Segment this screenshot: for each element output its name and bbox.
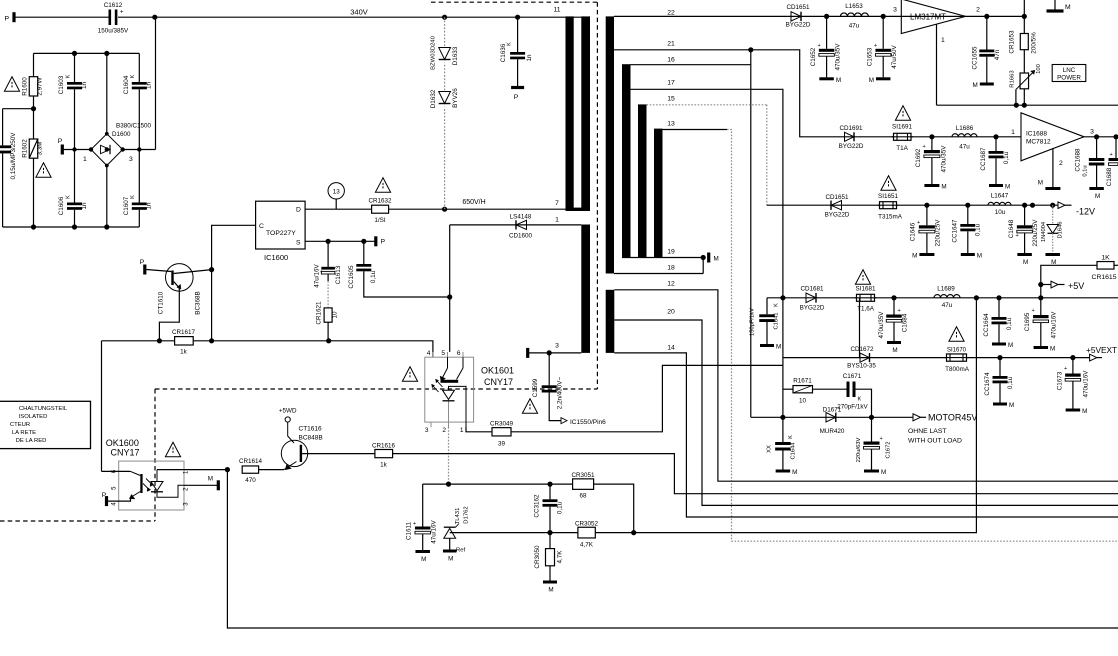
svg-text:C1599: C1599 [532, 378, 539, 397]
svg-text:M: M [792, 469, 797, 476]
svg-text:Ref: Ref [456, 548, 466, 554]
svg-text:M: M [1065, 4, 1071, 11]
svg-text:470u/16V: 470u/16V [1083, 370, 1090, 398]
svg-text:CD1651: CD1651 [786, 4, 810, 11]
svg-text:CNY17: CNY17 [111, 448, 140, 458]
svg-text:1: 1 [460, 427, 464, 434]
svg-text:D1632: D1632 [430, 89, 437, 108]
svg-text:XX: XX [767, 445, 773, 453]
svg-text:1k: 1k [380, 461, 388, 468]
svg-text:CR1616: CR1616 [372, 442, 396, 449]
svg-text:D: D [296, 207, 301, 214]
svg-text:+: + [818, 43, 821, 49]
svg-text:39: 39 [498, 440, 506, 447]
svg-text:4: 4 [427, 350, 431, 357]
svg-text:5: 5 [441, 350, 445, 357]
svg-text:K: K [66, 195, 72, 199]
svg-text:1n: 1n [81, 202, 88, 210]
svg-text:CC1687: CC1687 [980, 147, 987, 171]
svg-text:470u/35V: 470u/35V [835, 43, 842, 71]
svg-text:0,1u: 0,1u [1006, 317, 1013, 330]
svg-text:M: M [881, 469, 886, 476]
svg-text:3: 3 [893, 7, 897, 14]
svg-text:2: 2 [1059, 160, 1063, 167]
svg-text:+5VEXT: +5VEXT [1086, 345, 1117, 355]
svg-text:P: P [514, 94, 519, 101]
svg-text:R1600: R1600 [22, 77, 29, 96]
svg-text:650V/H: 650V/H [462, 199, 485, 206]
svg-text:LS4148: LS4148 [510, 213, 532, 220]
svg-text:D1762: D1762 [464, 506, 470, 523]
svg-text:47n: 47n [994, 49, 1001, 60]
svg-text:M: M [977, 253, 982, 260]
svg-text:M: M [1009, 402, 1014, 409]
svg-text:M: M [836, 77, 841, 84]
svg-text:16: 16 [667, 57, 675, 64]
svg-text:BYG22D: BYG22D [800, 305, 825, 312]
svg-text:WITH OUT LOAD: WITH OUT LOAD [908, 437, 962, 444]
svg-text:M: M [941, 184, 946, 191]
svg-text:22: 22 [667, 10, 675, 17]
svg-text:13: 13 [667, 121, 675, 128]
svg-text:C1644: C1644 [791, 442, 797, 460]
svg-text:TL431: TL431 [455, 508, 461, 525]
svg-text:MUR420: MUR420 [820, 428, 845, 435]
svg-text:K: K [507, 42, 513, 46]
svg-text:7: 7 [555, 200, 559, 207]
svg-text:M: M [776, 344, 781, 351]
svg-text:17: 17 [667, 80, 675, 87]
svg-text:CC1688: CC1688 [1075, 148, 1082, 172]
svg-text:BYG22D: BYG22D [786, 22, 811, 29]
svg-text:470u/35V: 470u/35V [878, 311, 885, 339]
svg-text:C: C [259, 223, 264, 230]
svg-text:T315mA: T315mA [878, 213, 903, 220]
svg-text:470u/16V: 470u/16V [1051, 311, 1058, 339]
svg-text:1: 1 [83, 156, 87, 163]
svg-text:SI1691: SI1691 [892, 124, 912, 131]
svg-text:B380/C1500: B380/C1500 [116, 123, 152, 130]
svg-text:2: 2 [442, 427, 446, 434]
svg-text:47u: 47u [849, 23, 860, 30]
svg-text:2,97W: 2,97W [37, 77, 44, 95]
svg-text:SI1681: SI1681 [856, 286, 876, 293]
svg-text:1K: 1K [1101, 254, 1110, 261]
svg-text:0,1u: 0,1u [975, 223, 982, 236]
svg-text:+: + [1016, 233, 1019, 239]
svg-text:C1606: C1606 [58, 196, 65, 215]
svg-text:C1641: C1641 [774, 312, 780, 329]
svg-text:1N4004: 1N4004 [1041, 221, 1047, 242]
svg-text:1n: 1n [81, 82, 88, 90]
svg-text:M: M [1023, 259, 1028, 266]
svg-text:K: K [774, 303, 780, 307]
svg-text:SI1651: SI1651 [878, 193, 898, 200]
svg-text:470: 470 [245, 477, 256, 484]
svg-text:L1647: L1647 [991, 193, 1009, 200]
svg-text:0,1u: 0,1u [1083, 165, 1089, 176]
svg-text:BYG22D: BYG22D [839, 143, 864, 150]
svg-text:T800mA: T800mA [945, 366, 970, 373]
svg-text:R1663: R1663 [1010, 70, 1016, 88]
svg-text:K: K [130, 74, 136, 78]
svg-text:2,2n/400V~: 2,2n/400V~ [557, 376, 564, 409]
svg-text:CNY17: CNY17 [484, 377, 513, 387]
svg-text:200/5%: 200/5% [1031, 32, 1038, 54]
svg-text:BC368B: BC368B [195, 291, 202, 314]
svg-text:C1653: C1653 [867, 47, 874, 66]
svg-text:CC1664: CC1664 [983, 313, 990, 337]
svg-text:L1689: L1689 [937, 285, 955, 292]
svg-text:BZW03D240: BZW03D240 [431, 35, 437, 69]
svg-text:C1688: C1688 [1106, 167, 1113, 186]
svg-text:C1613: C1613 [335, 265, 342, 284]
svg-text:M: M [912, 253, 917, 260]
svg-text:1: 1 [941, 37, 945, 44]
svg-text:C1611: C1611 [406, 521, 413, 540]
svg-text:0,15u/MP3/250V: 0,15u/MP3/250V [10, 132, 17, 180]
svg-text:3: 3 [425, 427, 429, 434]
svg-text:C1646: C1646 [910, 222, 917, 241]
svg-text:0,1u: 0,1u [1007, 376, 1014, 389]
svg-text:CT1610: CT1610 [158, 291, 165, 314]
svg-text:15: 15 [667, 96, 675, 103]
svg-text:LA RETE: LA RETE [12, 430, 36, 436]
svg-text:47u: 47u [959, 144, 970, 151]
svg-text:CD1672: CD1672 [850, 346, 874, 353]
svg-text:C1607: C1607 [123, 196, 130, 215]
svg-text:C1684: C1684 [902, 313, 909, 332]
svg-text:CR1614: CR1614 [239, 458, 263, 465]
svg-text:+: + [320, 269, 323, 275]
svg-text:+: + [413, 521, 416, 527]
svg-text:100: 100 [1036, 63, 1042, 74]
svg-text:P: P [140, 259, 145, 266]
svg-text:IC1600: IC1600 [264, 253, 288, 262]
svg-text:+: + [898, 308, 901, 314]
svg-text:+: + [1110, 152, 1113, 158]
svg-text:220u/25V: 220u/25V [1032, 219, 1039, 247]
svg-text:CR3052: CR3052 [575, 521, 599, 528]
svg-text:21: 21 [667, 41, 675, 48]
svg-text:4,7K: 4,7K [580, 541, 594, 548]
svg-text:LM317MT: LM317MT [910, 13, 946, 22]
svg-text:18: 18 [667, 265, 675, 272]
svg-text:C1612: C1612 [104, 2, 123, 9]
svg-text:BYG22D: BYG22D [825, 212, 850, 219]
svg-text:K: K [788, 435, 794, 439]
svg-text:1: 1 [555, 217, 559, 224]
svg-text:+5WD: +5WD [279, 407, 297, 414]
svg-text:CR3050: CR3050 [534, 545, 541, 569]
svg-text:20: 20 [667, 309, 675, 316]
svg-text:CR1621: CR1621 [316, 301, 323, 325]
svg-text:0,1u: 0,1u [557, 501, 564, 514]
svg-text:220u/63V: 220u/63V [856, 437, 862, 462]
svg-text:C1672: C1672 [886, 441, 892, 458]
svg-text:M: M [208, 476, 213, 483]
svg-text:P: P [58, 138, 63, 145]
svg-text:10: 10 [332, 311, 339, 319]
svg-text:1n: 1n [526, 54, 533, 62]
svg-text:CC1647: CC1647 [952, 219, 959, 243]
svg-text:-12V: -12V [1076, 207, 1095, 217]
svg-text:+: + [874, 43, 877, 49]
svg-text:4,7K: 4,7K [557, 550, 564, 564]
svg-text:270pF/1kV: 270pF/1kV [837, 403, 868, 410]
svg-text:M: M [892, 347, 897, 354]
svg-text:C1671: C1671 [843, 373, 862, 380]
svg-text:BC848B: BC848B [299, 435, 323, 442]
svg-text:L1686: L1686 [956, 125, 974, 132]
svg-text:SI1670: SI1670 [947, 347, 967, 353]
svg-text:+: + [1064, 366, 1067, 372]
svg-text:OK1601: OK1601 [481, 366, 514, 376]
svg-text:ISOLATED: ISOLATED [19, 414, 48, 420]
svg-text:M: M [1005, 184, 1010, 191]
svg-text:340V: 340V [350, 8, 368, 17]
svg-text:C1673: C1673 [1057, 371, 1064, 390]
svg-text:+: + [917, 220, 920, 226]
svg-text:K: K [66, 74, 72, 78]
svg-text:C1604: C1604 [123, 75, 130, 94]
svg-text:1k: 1k [180, 349, 188, 356]
svg-text:CC1655: CC1655 [972, 46, 979, 70]
svg-text:CC1674: CC1674 [984, 372, 991, 396]
svg-text:IC1550/Pin6: IC1550/Pin6 [570, 419, 606, 426]
svg-text:T1A: T1A [896, 145, 908, 152]
svg-text:M: M [1082, 408, 1087, 415]
svg-text:L1653: L1653 [845, 3, 863, 10]
svg-text:D1646: D1646 [1058, 221, 1064, 238]
svg-text:3: 3 [555, 343, 559, 350]
svg-text:CTEUR: CTEUR [10, 422, 30, 428]
svg-text:47u: 47u [942, 302, 953, 309]
svg-text:6: 6 [457, 350, 461, 357]
svg-text:C1692: C1692 [915, 148, 922, 167]
svg-text:CR1617: CR1617 [172, 329, 196, 336]
svg-text:3: 3 [129, 156, 133, 163]
svg-text:+: + [880, 436, 883, 442]
svg-text:+: + [923, 144, 926, 150]
svg-text:47u/50V: 47u/50V [891, 44, 898, 68]
svg-text:0,1u: 0,1u [370, 270, 377, 283]
svg-text:12: 12 [667, 281, 675, 288]
svg-text:CD1691: CD1691 [839, 125, 863, 132]
svg-text:D1600: D1600 [112, 131, 131, 138]
svg-text:S: S [296, 240, 301, 247]
svg-text:10u: 10u [995, 209, 1006, 216]
svg-text:220u/25V: 220u/25V [935, 219, 942, 247]
svg-text:47u/16V: 47u/16V [431, 519, 438, 543]
svg-text:150pF/1kV: 150pF/1kV [750, 308, 756, 336]
svg-text:2: 2 [976, 7, 980, 14]
svg-text:K: K [130, 195, 136, 199]
svg-text:CR1632: CR1632 [368, 197, 392, 204]
svg-text:P: P [5, 15, 10, 22]
svg-text:M: M [1095, 193, 1100, 200]
svg-text:14: 14 [667, 345, 675, 352]
svg-text:R1671: R1671 [793, 378, 812, 385]
svg-text:TOP227Y: TOP227Y [266, 230, 296, 237]
svg-text:CD1681: CD1681 [800, 286, 824, 293]
svg-text:+: + [1032, 308, 1035, 314]
svg-text:M: M [1038, 180, 1043, 187]
svg-text:P: P [102, 492, 107, 499]
svg-text:19: 19 [667, 249, 675, 256]
svg-text:OHNE LAST: OHNE LAST [908, 428, 947, 435]
svg-text:3: 3 [1090, 129, 1094, 136]
svg-text:IC1688: IC1688 [1026, 131, 1047, 138]
svg-text:CR1653: CR1653 [1009, 30, 1016, 54]
svg-text:CR3051: CR3051 [571, 472, 595, 479]
svg-text:150u/385V: 150u/385V [98, 28, 129, 35]
svg-text:1: 1 [1011, 129, 1015, 136]
svg-text:D1633: D1633 [452, 46, 459, 65]
svg-text:M: M [1050, 346, 1055, 353]
svg-text:C1603: C1603 [58, 75, 65, 94]
svg-text:C1648: C1648 [1008, 219, 1015, 238]
svg-text:10: 10 [799, 397, 807, 404]
svg-text:LNC: LNC [1063, 67, 1076, 74]
svg-text:M: M [714, 256, 719, 263]
svg-text:M: M [973, 82, 978, 89]
svg-text:DE LA RED: DE LA RED [16, 438, 47, 444]
svg-text:BYV26: BYV26 [452, 88, 459, 108]
svg-text:K: K [858, 397, 862, 403]
svg-text:CR3049: CR3049 [490, 421, 514, 428]
svg-text:M: M [421, 556, 426, 563]
svg-text:MOTOR45V: MOTOR45V [928, 413, 977, 423]
svg-text:CC3162: CC3162 [534, 494, 541, 518]
svg-text:POWER: POWER [1057, 74, 1081, 81]
svg-text:P: P [381, 239, 386, 246]
svg-text:M: M [548, 587, 553, 594]
svg-text:C1652: C1652 [810, 47, 817, 66]
svg-text:CD1651: CD1651 [825, 194, 849, 201]
svg-text:M: M [1008, 342, 1013, 349]
svg-text:3,3M: 3,3M [37, 142, 44, 156]
svg-text:CD1600: CD1600 [509, 233, 533, 240]
svg-text:CHALTUNGSTEIL: CHALTUNGSTEIL [19, 406, 68, 412]
svg-text:R1602: R1602 [22, 139, 29, 158]
svg-text:47u/16V: 47u/16V [314, 263, 321, 287]
svg-text:1n: 1n [146, 82, 153, 90]
svg-text:BYS10-35: BYS10-35 [847, 363, 876, 370]
svg-text:68: 68 [579, 493, 587, 500]
svg-text:+: + [120, 10, 124, 16]
svg-text:1/SI: 1/SI [374, 217, 385, 224]
svg-text:11: 11 [553, 7, 560, 14]
svg-text:CC1605: CC1605 [348, 265, 355, 289]
svg-text:C1695: C1695 [1024, 312, 1031, 331]
svg-text:M: M [448, 556, 453, 563]
svg-text:M: M [869, 77, 874, 84]
svg-text:0,1u: 0,1u [1003, 151, 1010, 164]
svg-text:470u/35V: 470u/35V [941, 145, 948, 173]
svg-text:OK1600: OK1600 [106, 438, 139, 448]
svg-text:CR1615: CR1615 [1092, 274, 1117, 281]
svg-text:CT1616: CT1616 [299, 426, 323, 433]
svg-text:13: 13 [333, 189, 341, 196]
svg-text:1n: 1n [146, 202, 153, 210]
svg-text:+5V: +5V [1068, 281, 1084, 291]
svg-text:MC7812: MC7812 [1026, 139, 1051, 146]
